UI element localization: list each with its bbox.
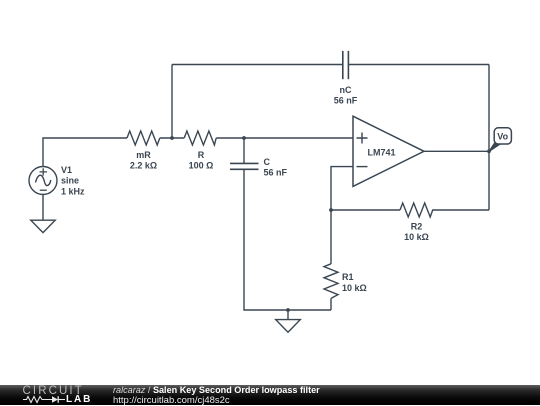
wire top rail right of nC <box>348 64 489 66</box>
wire capacitor C top lead <box>243 138 245 163</box>
svg-text:mR: mR <box>136 150 151 160</box>
wire ground stem bottom <box>287 310 289 320</box>
wire node A up to top rail <box>171 65 173 139</box>
wire ground stem under V1 <box>42 195 44 220</box>
wire R1 top lead <box>330 210 332 264</box>
resistor R <box>184 131 216 145</box>
label mR value <box>130 150 157 171</box>
resistor R2 <box>400 203 435 217</box>
svg-text:10 kΩ: 10 kΩ <box>404 232 429 242</box>
svg-text:V1: V1 <box>61 165 72 175</box>
label nC value <box>334 85 358 106</box>
op-amp U1 <box>353 116 424 186</box>
footer credit line <box>113 385 320 395</box>
wire capacitor C bottom to ground rail <box>244 169 331 310</box>
label C value <box>264 157 288 178</box>
logo resistor-diode glyph <box>23 397 52 403</box>
resistor mR <box>127 131 160 145</box>
wire right vertical rail <box>488 65 490 211</box>
wire V1 to main node <box>43 138 127 166</box>
svg-text:Vo: Vo <box>497 132 508 142</box>
node A junction dot <box>170 136 174 140</box>
ground node dot <box>286 308 290 312</box>
wire R1 bottom lead <box>330 298 332 310</box>
wire top rail left of nC <box>172 64 343 66</box>
wire mR to R <box>160 137 184 139</box>
footer bar <box>0 385 540 406</box>
svg-text:R1: R1 <box>342 272 354 282</box>
resistor R1 <box>324 264 338 299</box>
footer url line <box>113 395 230 406</box>
svg-text:R: R <box>198 150 205 160</box>
Vo flag <box>489 128 511 152</box>
wire R to op-amp + input <box>216 137 353 139</box>
svg-text:1 kHz: 1 kHz <box>61 186 85 196</box>
svg-text:nC: nC <box>340 85 352 95</box>
label V1 value <box>61 165 85 196</box>
output node dot <box>487 149 491 153</box>
capacitor nC <box>343 51 349 79</box>
CircuitLab logo <box>23 385 84 397</box>
svg-text:2.2 kΩ: 2.2 kΩ <box>130 160 157 170</box>
svg-text:10 kΩ: 10 kΩ <box>342 283 367 293</box>
wire R2 right <box>435 209 489 211</box>
wire R2 left <box>331 209 400 211</box>
svg-text:56 nF: 56 nF <box>334 96 358 106</box>
svg-text:sine: sine <box>61 176 79 186</box>
label R value <box>189 150 214 171</box>
svg-text:R2: R2 <box>411 222 423 232</box>
capacitor C <box>230 163 259 169</box>
wire op-amp minus input <box>331 167 353 210</box>
voltage source V1 <box>29 167 57 195</box>
svg-text:56 nF: 56 nF <box>264 167 288 177</box>
label R2 value <box>404 222 429 243</box>
wire op-amp output <box>424 150 489 152</box>
ground under V1 <box>31 220 55 232</box>
svg-text:C: C <box>264 157 271 167</box>
ground bottom <box>276 320 301 333</box>
node R2/R1/minus junction dot <box>329 208 333 212</box>
svg-text:LM741: LM741 <box>367 148 395 158</box>
op-amp plus pin mark <box>357 133 368 144</box>
node B junction dot <box>242 136 246 140</box>
op-amp minus pin mark <box>357 166 368 168</box>
label R1 value <box>342 272 367 293</box>
svg-text:100 Ω: 100 Ω <box>189 160 214 170</box>
